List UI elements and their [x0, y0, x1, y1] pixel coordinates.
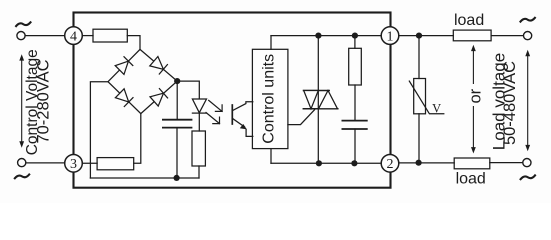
wire C2 to bottom rail — [354, 129, 356, 163]
phototransistor collector — [232, 102, 253, 111]
label or — [466, 84, 480, 106]
wire pin2 to load — [399, 162, 454, 164]
control voltage span arrow — [19, 54, 24, 148]
wire pin4 to R1 — [82, 35, 93, 37]
wire LED to R3 — [198, 113, 200, 131]
wire C1 to minus rail — [176, 128, 178, 178]
terminal 3 — [65, 155, 83, 173]
SSR enclosure box — [74, 13, 391, 188]
bridge diode D2 top-right — [150, 57, 168, 75]
wire R1 to bridge top — [127, 36, 140, 50]
AC source tilde top-left — [16, 22, 30, 26]
wire R2 to bridge bottom — [134, 114, 141, 164]
wire load to source bottom — [490, 162, 523, 164]
varistor RV1 — [418, 36, 420, 79]
wire load to source top — [491, 35, 523, 37]
input terminal top-left — [17, 31, 25, 39]
triac bottom bar — [303, 108, 338, 110]
triac main vertical — [317, 36, 319, 164]
svg-text:70-280VAC: 70-280VAC — [35, 59, 53, 143]
node minus-rail / C1 junction — [174, 175, 180, 181]
LED emission arrow 2 — [206, 113, 220, 124]
LED of optocoupler — [192, 99, 206, 113]
or span arrow — [471, 45, 476, 154]
resistor R3 — [192, 131, 205, 166]
triac triangle left — [304, 91, 319, 109]
node bridge plus output — [174, 78, 180, 84]
input terminal bottom-left — [18, 159, 26, 167]
wire pin3 to R2 — [82, 162, 97, 164]
svg-text:3: 3 — [70, 157, 77, 172]
capacitor C1 — [163, 120, 192, 128]
control units box — [252, 49, 288, 148]
wire plus node to C1 — [176, 81, 178, 120]
wire bridge left vertex to minus rail — [90, 82, 108, 178]
svg-text:4: 4 — [70, 30, 77, 45]
node snubber bottom — [351, 160, 357, 166]
bridge arm wires — [108, 49, 177, 113]
bridge diode D4 bottom-right — [150, 89, 168, 107]
LED emission arrow 1 — [209, 100, 222, 111]
wire input to pin3 — [26, 162, 65, 164]
wire R4 to C2 — [354, 85, 356, 121]
phototransistor base bar — [231, 105, 233, 124]
svg-text:load: load — [456, 170, 486, 187]
svg-text:50-480VAC: 50-480VAC — [501, 61, 519, 145]
load box top — [453, 30, 491, 41]
wire input to pin4 — [25, 35, 65, 37]
triac triangle right — [319, 91, 338, 109]
svg-text:load: load — [454, 12, 484, 29]
svg-text:or: or — [467, 88, 485, 103]
svg-text:1: 1 — [387, 30, 394, 45]
svg-text:2: 2 — [387, 157, 394, 172]
terminal 1 — [381, 27, 399, 45]
load voltage span arrow — [525, 50, 530, 152]
resistor R4 snubber — [349, 48, 362, 85]
triac top bar — [304, 90, 330, 92]
minus rail — [90, 177, 199, 179]
wire to R4 — [354, 36, 356, 49]
wire plus node to LED — [177, 81, 199, 99]
source terminal top-right — [524, 31, 532, 39]
node varistor bottom — [416, 160, 422, 166]
resistor R1 — [93, 29, 127, 42]
load box bottom — [454, 158, 490, 169]
top rail pin1 — [271, 35, 381, 37]
AC source tilde bottom-left — [15, 175, 29, 179]
wire control box bottom to rail — [270, 149, 272, 164]
bottom rail pin2 — [271, 162, 381, 164]
triac gate wire — [288, 110, 315, 125]
resistor R2 — [97, 158, 134, 170]
phototransistor emitter — [232, 118, 244, 127]
wire control box top to plus rail — [270, 36, 272, 50]
svg-text:V: V — [432, 102, 441, 116]
node snubber top — [352, 33, 358, 39]
terminal 2 — [381, 155, 399, 173]
capacitor C2 snubber — [342, 121, 366, 129]
bridge diode D3 bottom-left — [115, 89, 133, 107]
bridge diode D1 top-left — [115, 57, 133, 75]
source terminal bottom-right — [523, 159, 531, 167]
wire pin1 to load — [399, 35, 454, 37]
terminal 4 — [65, 27, 83, 45]
node triac top — [315, 33, 321, 39]
AC source tilde bottom-right — [521, 175, 535, 179]
AC source tilde top-right — [521, 18, 535, 22]
node triac bottom — [316, 160, 322, 166]
svg-text:Control units: Control units — [261, 54, 278, 144]
wire R3 to minus rail — [198, 166, 200, 178]
node varistor top — [416, 33, 422, 39]
